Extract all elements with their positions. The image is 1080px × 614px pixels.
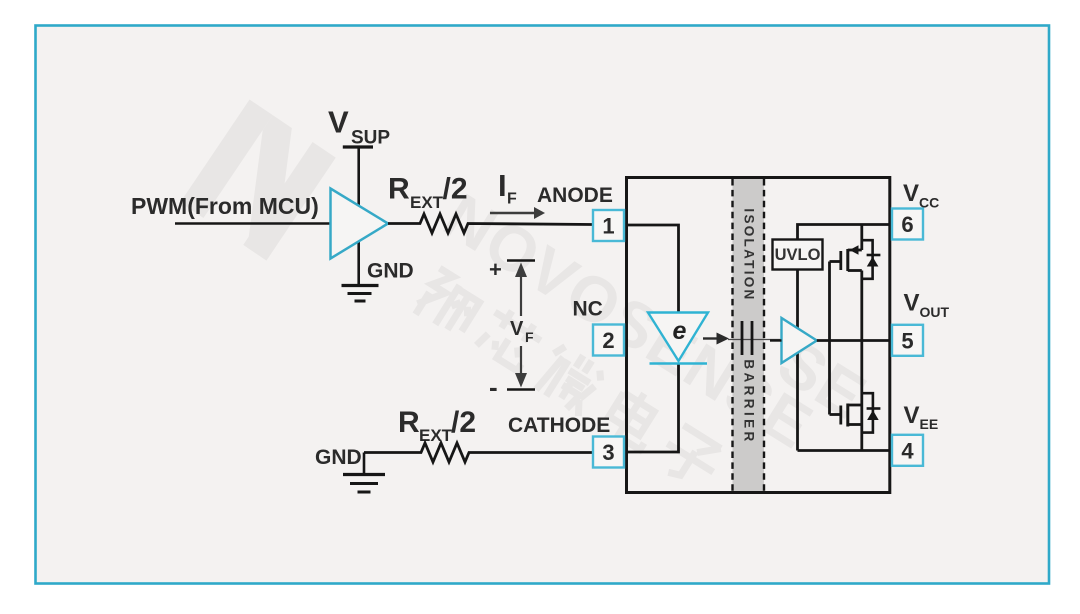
resistor R2 bbox=[364, 443, 593, 462]
amp input stub bbox=[770, 339, 782, 341]
watermark logo bbox=[180, 100, 336, 261]
pin 6 bbox=[892, 209, 923, 240]
wire pin1 to LED bbox=[624, 225, 679, 313]
isolation barrier band bbox=[733, 179, 765, 491]
buffer U1 bbox=[331, 189, 389, 259]
svg-text:GND: GND bbox=[315, 446, 362, 469]
svg-text:CATHODE: CATHODE bbox=[508, 414, 610, 437]
svg-text:e: e bbox=[673, 317, 687, 345]
子 bbox=[655, 423, 726, 492]
svg-text:-: - bbox=[489, 372, 498, 402]
VF arrow top bar bbox=[507, 259, 535, 262]
VF bottom bar bbox=[507, 388, 535, 391]
svg-text:5: 5 bbox=[901, 328, 913, 353]
UVLO stub bbox=[796, 270, 799, 451]
pin 3 bbox=[593, 437, 624, 468]
thin coupling wire bbox=[728, 339, 781, 341]
svg-text:+: + bbox=[489, 257, 502, 282]
svg-text:UVLO: UVLO bbox=[775, 246, 821, 264]
svg-text:EE: EE bbox=[920, 416, 939, 432]
LED D1 bbox=[648, 313, 708, 364]
UVLO U2 bbox=[773, 240, 823, 270]
Vsup bar bbox=[343, 145, 373, 148]
pin 1 bbox=[593, 210, 624, 241]
纳 bbox=[412, 268, 484, 340]
pin 2 bbox=[593, 325, 624, 356]
svg-text:I: I bbox=[498, 168, 507, 203]
svg-text:/2: /2 bbox=[443, 173, 468, 206]
svg-text:1: 1 bbox=[602, 214, 614, 239]
svg-text:3: 3 bbox=[602, 440, 614, 465]
transistor Q2 bbox=[830, 341, 873, 451]
svg-text:4: 4 bbox=[901, 438, 914, 463]
watermark chinese bbox=[412, 266, 729, 492]
svg-text:V: V bbox=[904, 402, 920, 429]
svg-text:CC: CC bbox=[919, 195, 939, 211]
svg-text:EXT: EXT bbox=[410, 193, 444, 212]
svg-text:/2: /2 bbox=[451, 406, 476, 439]
IC outline bbox=[627, 178, 890, 493]
arrow LED to cap bbox=[703, 333, 729, 345]
VF arrow bbox=[515, 263, 527, 388]
body diode Q1 bbox=[867, 255, 881, 267]
svg-text:F: F bbox=[525, 329, 534, 345]
电 bbox=[603, 384, 667, 450]
gate rail bbox=[828, 262, 831, 415]
watermark NOVOSENSE bbox=[432, 180, 825, 463]
svg-text:2: 2 bbox=[602, 328, 614, 353]
svg-text:OUT: OUT bbox=[920, 304, 950, 320]
pin 4 bbox=[892, 435, 923, 466]
barrier dashed left bbox=[731, 179, 733, 491]
pin 5 bbox=[892, 325, 923, 356]
微 bbox=[533, 342, 607, 416]
Vee rail bbox=[798, 449, 893, 452]
芯 bbox=[475, 304, 546, 373]
amp U3 bbox=[782, 318, 817, 363]
ground (left) bbox=[343, 453, 385, 493]
svg-text:R: R bbox=[398, 406, 420, 439]
svg-text:NC: NC bbox=[573, 298, 603, 321]
barrier dashed right bbox=[763, 179, 765, 491]
svg-text:BARRIER: BARRIER bbox=[742, 359, 757, 444]
svg-text:6: 6 bbox=[901, 212, 913, 237]
svg-text:V: V bbox=[903, 180, 919, 207]
svg-text:R: R bbox=[388, 173, 410, 206]
wire PWM input bbox=[175, 222, 332, 225]
amp output wire bbox=[817, 339, 892, 342]
IF arrow bbox=[490, 207, 545, 219]
svg-text:ISOLATION: ISOLATION bbox=[742, 208, 757, 301]
body diode Q2 bbox=[867, 409, 881, 421]
svg-text:GND: GND bbox=[367, 260, 414, 283]
Vcc rail bbox=[798, 225, 893, 240]
ground (buffer) bbox=[342, 286, 379, 302]
svg-text:F: F bbox=[507, 191, 517, 208]
svg-text:ANODE: ANODE bbox=[537, 184, 613, 207]
svg-text:PWM(From MCU): PWM(From MCU) bbox=[131, 193, 319, 219]
transistor Q1 bbox=[830, 225, 873, 341]
wire LED to pin3 bbox=[624, 364, 679, 453]
watermark tail SE bbox=[766, 325, 879, 433]
svg-text:V: V bbox=[510, 318, 524, 340]
svg-text:V: V bbox=[904, 290, 920, 317]
resistor R1 bbox=[388, 214, 593, 233]
wire Vsup vertical bbox=[357, 147, 360, 285]
svg-text:V: V bbox=[328, 105, 349, 140]
capacitor C1 bbox=[742, 321, 752, 355]
